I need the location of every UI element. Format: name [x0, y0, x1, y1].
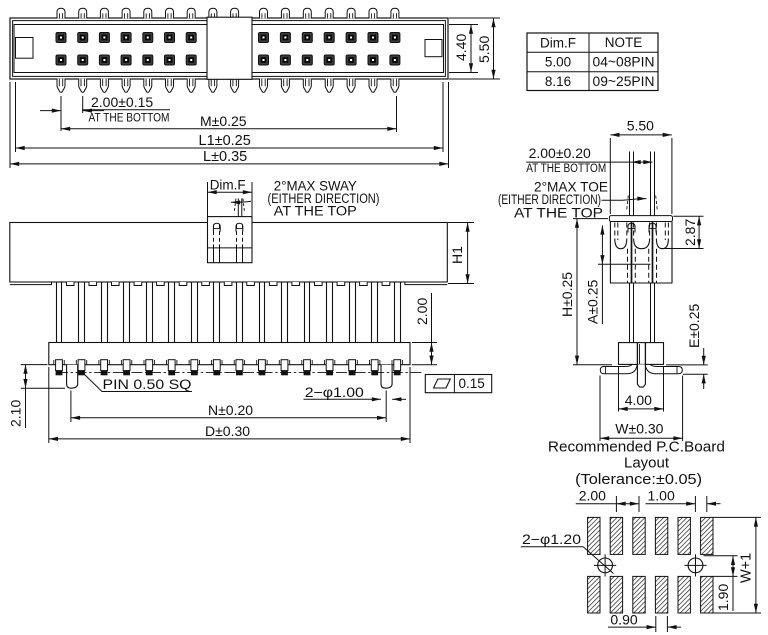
- side view: contact pin tips (domes): [628, 223, 635, 232]
- dimension 2.00 plate thickness: [412, 342, 437, 344]
- dimension 1.90: [704, 555, 738, 557]
- svg-text:1.00: 1.00: [648, 487, 675, 503]
- front view: pin feet: [54, 360, 64, 376]
- dimension H1: [448, 222, 474, 224]
- svg-text:09~25PIN: 09~25PIN: [593, 74, 655, 89]
- side view: pins above body: [629, 152, 631, 216]
- side view: bottom plate: [619, 343, 664, 365]
- svg-text:W+1: W+1: [739, 553, 755, 583]
- svg-text:H±0.25: H±0.25: [559, 272, 575, 317]
- front view: hidden pins in key block (dashed): [213, 225, 215, 248]
- svg-text:2.00: 2.00: [579, 487, 606, 503]
- svg-text:2−φ1.00: 2−φ1.00: [305, 385, 364, 400]
- front view: feet centerline: [57, 372, 422, 374]
- dimension 5.50 (side view): [609, 138, 611, 214]
- dimension 4.00: [618, 366, 620, 412]
- svg-text:8.16: 8.16: [545, 74, 571, 89]
- svg-text:0.15: 0.15: [459, 376, 485, 391]
- side view: toe tilt dashes: [627, 196, 629, 212]
- top view: left polarization notch: [16, 38, 34, 59]
- dimension 2.00±0.15: [60, 96, 62, 131]
- svg-text:H1: H1: [449, 246, 465, 264]
- side view: pins below body: [629, 283, 631, 343]
- dimension N±0.20: [70, 391, 72, 423]
- side view: pins through body (solid): [631, 222, 633, 284]
- front view: key block shelf: [208, 247, 253, 249]
- top view: center key block: [207, 17, 252, 79]
- svg-text:AT THE BOTTOM: AT THE BOTTOM: [89, 111, 170, 125]
- dimension H±0.25: [573, 218, 608, 220]
- leader to pin top: [602, 199, 647, 201]
- front view: center key block: [208, 217, 253, 263]
- svg-text:Recommended P.C.Board: Recommended P.C.Board: [548, 439, 725, 455]
- top view: contact squares: [56, 33, 66, 43]
- pcb pads bottom row: [588, 517, 600, 554]
- dimension E±0.25: [666, 364, 708, 366]
- side view: hidden pin channel lines (dashed): [627, 249, 629, 283]
- dimension A±0.25: [598, 263, 651, 265]
- label PIN 0.50 SQ: [85, 375, 193, 392]
- front view: left locator peg: [67, 365, 78, 389]
- svg-text:L±0.35: L±0.35: [203, 149, 247, 165]
- svg-text:4.00: 4.00: [625, 392, 652, 408]
- dimension L±0.35: [9, 82, 11, 168]
- svg-text:1.90: 1.90: [715, 584, 731, 611]
- svg-text:Layout: Layout: [624, 456, 669, 472]
- svg-text:W±0.30: W±0.30: [615, 421, 663, 437]
- side view: top cap bar: [609, 216, 672, 222]
- side view: peg through plate: [636, 343, 638, 365]
- svg-text:5.50: 5.50: [627, 117, 654, 133]
- svg-text:5.00: 5.00: [545, 55, 571, 70]
- side view: right SMT lead: [650, 364, 679, 366]
- front view: pins below body: [56, 282, 58, 343]
- pcb hole right: [684, 554, 706, 576]
- svg-text:PIN 0.50 SQ: PIN 0.50 SQ: [103, 377, 192, 392]
- dimension L1±0.25: [15, 82, 17, 152]
- svg-text:NOTE: NOTE: [605, 35, 643, 50]
- front view: protruding center pin: [237, 198, 239, 216]
- flatness feature control frame: [425, 375, 491, 393]
- svg-text:Dim.F: Dim.F: [540, 36, 576, 51]
- front view: right locator peg: [381, 365, 392, 389]
- svg-text:2.00±0.20: 2.00±0.20: [529, 145, 591, 161]
- dimension 2.87: [673, 215, 703, 217]
- svg-text:0.90: 0.90: [610, 611, 637, 627]
- side view: socket walls (dashed): [617, 223, 619, 241]
- svg-text:D±0.30: D±0.30: [205, 423, 250, 439]
- svg-text:04~08PIN: 04~08PIN: [593, 55, 655, 70]
- svg-text:L1±0.25: L1±0.25: [199, 133, 251, 149]
- pcb hole left: [594, 554, 616, 576]
- front view: standoff tabs: [67, 282, 75, 286]
- table Dim.F / NOTE: [527, 33, 658, 91]
- svg-text:4.40: 4.40: [453, 34, 469, 61]
- dimension Dim.F: [207, 182, 209, 217]
- dimension 4.40: [449, 24, 478, 26]
- svg-text:2.87: 2.87: [682, 219, 698, 246]
- svg-text:E±0.25: E±0.25: [686, 304, 702, 348]
- top view: right polarization notch: [425, 40, 442, 57]
- dimension D±0.30: [48, 367, 50, 443]
- side view: locator peg below plate: [637, 364, 645, 387]
- front view: solid pin lines below shelf: [213, 248, 215, 263]
- top view: lower pin tips: [57, 79, 65, 93]
- svg-text:5.50: 5.50: [476, 36, 492, 63]
- front view: bottom end skirts: [10, 282, 52, 285]
- label 2°MAX SWAY leader: [231, 201, 251, 202]
- dimension 2.10: [21, 364, 48, 366]
- svg-text:2.00: 2.00: [414, 298, 430, 325]
- dimension W+1: [713, 516, 761, 518]
- top view: connector body frame: [10, 18, 448, 79]
- svg-text:2.00±0.15: 2.00±0.15: [91, 94, 153, 110]
- top view: upper pin tips: [57, 8, 65, 18]
- svg-text:2.10: 2.10: [8, 400, 24, 427]
- dimension 5.50 (top view): [449, 17, 500, 19]
- svg-text:2−φ1.20: 2−φ1.20: [522, 531, 581, 547]
- svg-text:A±0.25: A±0.25: [585, 280, 601, 324]
- svg-text:AT THE TOP: AT THE TOP: [274, 203, 357, 218]
- dimension M±0.25: [396, 96, 398, 132]
- front view: sway tilt dashes: [234, 199, 236, 213]
- side view: left SMT lead: [604, 364, 632, 366]
- svg-text:M±0.25: M±0.25: [200, 113, 247, 129]
- svg-text:Dim.F: Dim.F: [210, 177, 246, 192]
- svg-text:N±0.20: N±0.20: [208, 402, 253, 418]
- svg-text:(Tolerance:±0.05): (Tolerance:±0.05): [575, 472, 702, 488]
- side view: body outline: [610, 222, 672, 284]
- front view: pin tip domes inside key block: [213, 223, 220, 231]
- side view: socket cavity cups: [615, 239, 627, 249]
- front view: bottom plate: [49, 343, 410, 365]
- dimension W±0.30: [599, 376, 601, 442]
- svg-text:AT THE BOTTOM: AT THE BOTTOM: [526, 161, 606, 175]
- front view: body: [10, 223, 448, 283]
